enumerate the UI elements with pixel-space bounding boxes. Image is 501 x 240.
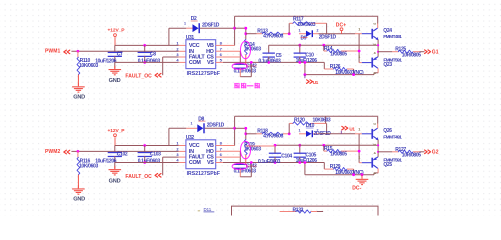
resistor R116 10K/0603: [77, 151, 79, 157]
svg-text:PWM2: PWM2: [45, 149, 61, 155]
svg-text:D8: D8: [198, 116, 204, 122]
annotation circle around R114: [241, 41, 251, 59]
svg-text:+12V_P: +12V_P: [108, 128, 126, 134]
power port DC- ground style: [361, 173, 364, 176]
svg-text:10uF/1206: 10uF/1206: [95, 159, 117, 165]
net label OUT1: [340, 131, 342, 134]
svg-text:COM: COM: [189, 60, 201, 66]
svg-text:COM: COM: [189, 160, 201, 166]
wire CS pin: [216, 156, 223, 158]
capacitor C105 10uF/1206: [299, 145, 301, 153]
svg-text:C104: C104: [281, 154, 292, 160]
svg-text:0.1uF/0603: 0.1uF/0603: [258, 159, 281, 165]
wire base node drop: [358, 34, 360, 51]
svg-text:1K/0805: 1K/0805: [330, 51, 347, 57]
annotation text pink: [234, 83, 239, 85]
transistor Q26 FMMT491 NPN: [371, 129, 373, 139]
svg-text:Q26: Q26: [383, 128, 392, 134]
svg-text:PWM1: PWM1: [45, 49, 61, 55]
diode D8 2DSF1D: [186, 127, 197, 129]
svg-text:IRS2127SPbF: IRS2127SPbF: [187, 71, 220, 77]
svg-text:10K0603: 10K0603: [313, 117, 331, 123]
resistor R120 12K/0603: [288, 132, 291, 135]
resistor R129 10K/0603 not fitted: [323, 163, 325, 170]
svg-text:0.1uF/0603: 0.1uF/0603: [138, 159, 161, 165]
wire HO pin: [216, 150, 223, 152]
svg-text:Q25: Q25: [383, 162, 392, 168]
svg-text:VS: VS: [207, 160, 214, 166]
wire CS pin: [216, 56, 223, 58]
junction collector return: [352, 73, 355, 76]
svg-text:1K/0603: 1K/0603: [244, 147, 261, 153]
svg-text:10K0603: 10K0603: [297, 22, 315, 28]
resistor R113 4.7K/0603: [244, 32, 247, 35]
svg-text:FAULT_OC: FAULT_OC: [125, 74, 152, 80]
svg-text:C102: C102: [117, 152, 128, 158]
capacitor C5 0.1uF/0603: [268, 45, 270, 53]
svg-text:C8: C8: [150, 51, 156, 57]
junction +12V bus / C6 branch: [143, 44, 146, 47]
transistor Q23 FMMT591 PNP: [371, 58, 373, 68]
wire PWM to IC IN pin: [71, 150, 178, 152]
svg-text:G2: G2: [432, 150, 439, 156]
wire FAULT_OC to IC FAULT pin: [162, 157, 164, 175]
wire emitter junction: [377, 40, 379, 57]
svg-text:Q23: Q23: [383, 62, 392, 68]
junction bootstrap node: [233, 27, 236, 30]
svg-text:0.1uF/0603: 0.1uF/0603: [258, 59, 281, 65]
junction C10 top: [298, 44, 301, 47]
annotation circle around C142: [232, 63, 247, 69]
wire VS pin / VS bus: [216, 61, 223, 63]
junction C103 to ground bus: [143, 161, 146, 164]
resistor R114 1K/0603 vertical: [245, 28, 247, 39]
svg-text:4.7K/0603: 4.7K/0603: [263, 33, 283, 39]
svg-text:U1: U1: [349, 126, 355, 131]
capacitor C143 0.1uF/0603: [234, 164, 246, 165]
wire bootstrap node riser to top rail: [234, 28, 236, 45]
svg-text:2DSF1D: 2DSF1D: [202, 22, 220, 28]
capacitor C7 10uF/1206: [114, 45, 116, 53]
top rail wire: [235, 15, 378, 17]
wire collector return row: [305, 74, 374, 76]
svg-text:C7: C7: [117, 51, 123, 57]
wire base node drop: [358, 134, 360, 151]
svg-text:D11: D11: [204, 207, 212, 212]
wire FAULT_OC to IC FAULT pin: [162, 57, 164, 75]
wire HO drop to C143 cap: [239, 151, 241, 165]
junction R14 to base drop: [358, 50, 361, 53]
wire emitter supply row: [269, 44, 378, 46]
resistor R127 10R/0805 gate: [378, 151, 392, 153]
wire bootstrap node riser to top rail: [234, 128, 236, 145]
junction C105 bottom on VS bus: [298, 161, 301, 164]
svg-text:FMMT491: FMMT491: [383, 134, 402, 140]
ground bus wire to COM pin: [115, 61, 179, 63]
capacitor C142 0.1uF/0603: [234, 64, 246, 65]
svg-text:10R/0805: 10R/0805: [402, 153, 421, 159]
junction PWM/R divider: [77, 50, 80, 53]
junction C10 bottom on VS bus: [298, 61, 301, 64]
junction R114 top: [235, 27, 246, 29]
svg-text:4.7K/0603: 4.7K/0603: [263, 134, 283, 140]
wire +12V bus riser to bootstrap diode: [168, 28, 170, 45]
svg-text:GND: GND: [109, 178, 121, 184]
svg-text:C103: C103: [150, 152, 161, 158]
svg-text:GND: GND: [109, 78, 121, 84]
ground bus wire to COM pin: [115, 162, 179, 164]
wire VB pin to bootstrap node: [216, 44, 223, 46]
capacitor C103 0.1uF/0603: [144, 146, 146, 154]
resistor R119 1K/0603 vertical: [245, 128, 247, 139]
svg-text:U1: U1: [313, 80, 319, 85]
wire diode to transistor bases: [318, 133, 355, 135]
svg-text:DC-: DC-: [352, 186, 361, 192]
wire diode to transistor bases: [318, 33, 355, 35]
junction C142 return on VS bus: [250, 61, 253, 64]
junction bootstrap node: [233, 127, 236, 130]
svg-text:FAULT_OC: FAULT_OC: [125, 174, 152, 180]
wire emitter supply row: [275, 144, 378, 146]
ground for R110: [72, 86, 85, 87]
capacitor C8 0.1uF/0603: [144, 45, 146, 53]
resistor R126 10K/0603 not fitted: [323, 62, 325, 69]
junction C105 top: [298, 144, 301, 147]
ground for C102: [109, 169, 122, 170]
resistor R117 12K/0603: [288, 32, 291, 35]
resistor R125 10R/0805 gate: [378, 51, 392, 53]
wire PWM to IC IN pin: [71, 50, 178, 52]
svg-text:R120: R120: [294, 117, 305, 123]
svg-text:FMMT491: FMMT491: [383, 34, 402, 40]
wire +12V bus to VCC pin: [115, 44, 179, 46]
next circuit block partial: [232, 206, 379, 215]
junction R15 to base drop: [358, 150, 361, 153]
wire collector return row: [305, 174, 374, 176]
port G2: [425, 150, 428, 154]
svg-text:IRS2127SPbF: IRS2127SPbF: [187, 171, 220, 177]
resistor R132 partial: [280, 211, 296, 213]
resistor R14 1K/0805: [322, 44, 325, 47]
diode D10 2DSF1D: [299, 133, 306, 135]
svg-text:1K/0805: 1K/0805: [330, 152, 347, 158]
svg-text:2DSF1D: 2DSF1D: [319, 34, 337, 40]
svg-text:Q24: Q24: [383, 28, 392, 34]
svg-text:2DSF1D: 2DSF1D: [207, 122, 225, 128]
junction PWM/R divider: [77, 150, 80, 153]
resistor R110 10K/0603: [77, 51, 79, 57]
wire VB pin to bootstrap node: [216, 145, 223, 147]
resistor R118 4.7K/0603: [244, 132, 247, 135]
junction R119 top: [235, 127, 246, 129]
svg-text:VS: VS: [207, 60, 214, 66]
annotation circle around R119: [241, 141, 251, 159]
svg-text:+12V_P: +12V_P: [108, 28, 126, 34]
svg-text:0.1uF/0603: 0.1uF/0603: [138, 58, 161, 64]
top rail wire: [235, 115, 378, 117]
wire C143 bottom return to VS: [239, 168, 241, 177]
svg-text:D9: D9: [301, 35, 307, 41]
capacitor C104 0.1uF/0603: [274, 145, 276, 153]
wire +12V bus riser to bootstrap diode: [168, 128, 170, 145]
junction collector return: [352, 173, 355, 176]
diode D9 2DSF1D: [299, 33, 306, 35]
wire VS pin / VS bus: [216, 162, 223, 164]
wire emitter junction: [377, 140, 379, 157]
svg-text:1: 1: [358, 155, 360, 159]
resistor R15 1K/0805: [322, 144, 325, 147]
wire HO pin: [216, 50, 223, 52]
svg-text:1: 1: [358, 55, 360, 59]
diode D2 2DSF1D: [186, 27, 192, 29]
ground for R116: [72, 188, 85, 189]
junction +12V bus / C6 branch: [143, 144, 146, 147]
transistor Q25 FMMT591 PNP: [371, 158, 373, 168]
svg-text:1: 1: [358, 28, 360, 32]
svg-text:GND: GND: [73, 95, 85, 101]
svg-text:1K/0603: 1K/0603: [244, 47, 261, 53]
svg-text:GND: GND: [73, 197, 85, 203]
capacitor C10 10uF/1206: [299, 45, 301, 53]
svg-text:10K/0603(NC): 10K/0603(NC): [335, 170, 364, 176]
transistor Q24 FMMT491 NPN: [371, 29, 373, 39]
svg-text:R132: R132: [293, 207, 304, 213]
wire C142 bottom return to VS: [239, 68, 241, 77]
junction C8 to ground bus: [143, 61, 146, 64]
annotation circle around C143: [232, 163, 247, 169]
svg-text:D2: D2: [191, 16, 197, 22]
svg-text:1: 1: [358, 128, 360, 132]
wire +12V bus to VCC pin: [115, 145, 179, 147]
svg-text:10uF/1206: 10uF/1206: [95, 59, 117, 65]
ground for C7: [109, 69, 122, 70]
port G1: [425, 50, 428, 54]
wire HO drop to C142 cap: [239, 51, 241, 65]
net label U1 output: [304, 73, 307, 76]
junction C143 return on VS bus: [250, 161, 253, 164]
svg-text:G1: G1: [432, 49, 439, 55]
capacitor C102 10uF/1206: [114, 146, 116, 154]
svg-text:10R/0805: 10R/0805: [402, 52, 421, 58]
